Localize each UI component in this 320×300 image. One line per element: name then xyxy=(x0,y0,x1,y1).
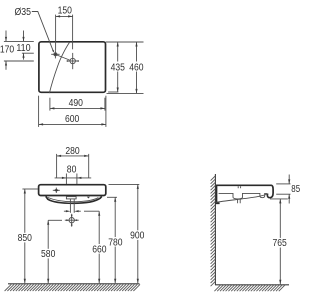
dim 435 (plan right) xyxy=(106,42,144,92)
svg-text:660: 660 xyxy=(92,244,107,255)
svg-text:150: 150 xyxy=(58,5,73,16)
break curve in plan view xyxy=(49,42,69,93)
svg-text:490: 490 xyxy=(69,98,84,109)
ground line side xyxy=(215,284,289,286)
svg-text:80: 80 xyxy=(67,165,77,176)
svg-text:780: 780 xyxy=(108,237,123,248)
svg-text:900: 900 xyxy=(130,231,145,242)
svg-text:85: 85 xyxy=(291,184,300,195)
svg-text:580: 580 xyxy=(41,249,56,260)
dim 660 (front) xyxy=(84,211,108,283)
ground hatch front xyxy=(5,284,140,291)
svg-text:170: 170 xyxy=(0,44,15,55)
dim 80 (front) xyxy=(55,165,92,184)
dim 765 (side) xyxy=(270,199,289,284)
dim 170 (plan left) xyxy=(0,31,34,70)
dim 280 (front top) xyxy=(57,146,89,178)
bowl front view xyxy=(46,196,102,212)
wall hatch xyxy=(211,176,216,286)
svg-text:850: 850 xyxy=(18,233,33,244)
faucet hole cross C2 (plan) xyxy=(67,53,79,69)
dim 460 (plan right) xyxy=(107,42,145,93)
drain pointer arrows (front) xyxy=(64,210,81,212)
svg-text:110: 110 xyxy=(16,43,31,54)
dim 780 (front) xyxy=(107,197,125,283)
svg-text:600: 600 xyxy=(65,114,80,125)
dim 85 (side right) xyxy=(276,175,300,204)
dim 850 (front far left) xyxy=(16,189,38,283)
leader line O35 xyxy=(32,12,70,61)
svg-text:460: 460 xyxy=(129,63,144,74)
dim 150 (plan top) xyxy=(56,5,73,50)
ground hatch side xyxy=(214,285,285,292)
wall line xyxy=(214,174,216,285)
dim 110 (plan left) xyxy=(4,31,34,60)
svg-text:765: 765 xyxy=(272,238,286,249)
ground line front xyxy=(8,283,140,285)
dim 580 (front) xyxy=(39,220,62,283)
faucet hole cross C1 (plan) xyxy=(51,50,59,58)
basin side profile xyxy=(216,185,274,203)
dim 490 (plan bottom) xyxy=(50,98,105,111)
trap cross symbol (front) xyxy=(65,214,79,227)
svg-text:435: 435 xyxy=(111,63,125,74)
basin outline plan view xyxy=(39,42,106,93)
rim front view xyxy=(39,185,106,196)
dim 900 (front) xyxy=(109,184,147,283)
faucet cross on rim front xyxy=(53,188,60,193)
svg-text:280: 280 xyxy=(65,146,80,157)
svg-text:Ø35: Ø35 xyxy=(15,7,32,18)
dim 600 (plan bottom) xyxy=(39,96,106,127)
